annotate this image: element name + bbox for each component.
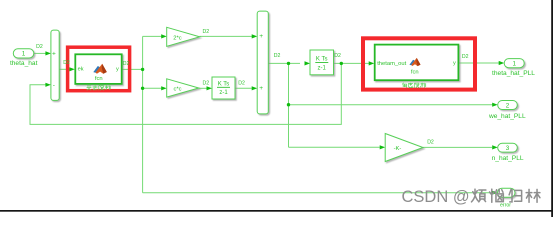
- svg-text:D2: D2: [274, 53, 281, 59]
- svg-text:+: +: [259, 33, 263, 40]
- svg-text:error: error: [500, 203, 511, 209]
- svg-text:-: -: [53, 82, 55, 89]
- svg-text:1: 1: [512, 61, 516, 68]
- svg-text:D2: D2: [36, 44, 43, 50]
- svg-text:-K-: -K-: [394, 146, 402, 152]
- svg-text:fcn: fcn: [411, 69, 419, 75]
- svg-text:+: +: [52, 51, 56, 58]
- svg-text:n_hat_PLL: n_hat_PLL: [492, 155, 524, 162]
- svg-text:theta_hat_PLL: theta_hat_PLL: [492, 70, 535, 77]
- svg-text:we_hat_PLL: we_hat_PLL: [488, 113, 526, 120]
- svg-text:D2: D2: [203, 81, 210, 87]
- svg-text:z-1: z-1: [318, 65, 327, 71]
- svg-text:D2: D2: [238, 80, 245, 86]
- svg-text:CSDN @: CSDN @: [402, 188, 470, 206]
- svg-text:c*c: c*c: [173, 87, 181, 93]
- svg-text:theta_hat: theta_hat: [10, 60, 38, 67]
- svg-text:D2: D2: [63, 60, 70, 66]
- svg-text:2: 2: [506, 102, 510, 109]
- svg-text:D2: D2: [427, 140, 434, 146]
- svg-text:1: 1: [22, 51, 26, 58]
- svg-text:D2: D2: [462, 54, 469, 60]
- svg-text:K Ts: K Ts: [316, 56, 328, 62]
- svg-text:D2: D2: [203, 29, 210, 35]
- svg-text:y: y: [116, 66, 119, 72]
- svg-text:K Ts: K Ts: [218, 81, 230, 87]
- svg-text:+: +: [259, 85, 263, 92]
- svg-text:3: 3: [506, 145, 510, 152]
- svg-text:D2: D2: [334, 53, 341, 59]
- svg-text:ek: ek: [78, 66, 84, 72]
- svg-text:z-1: z-1: [219, 90, 228, 96]
- svg-text:thetam_out: thetam_out: [377, 61, 406, 67]
- svg-text:fcn: fcn: [95, 76, 103, 82]
- svg-text:y: y: [453, 60, 456, 66]
- svg-text:2*c: 2*c: [173, 35, 181, 41]
- svg-text:D2: D2: [123, 61, 130, 67]
